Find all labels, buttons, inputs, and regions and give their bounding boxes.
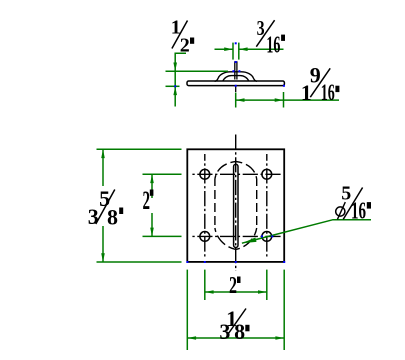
ext line at dome top level [166, 70, 229, 72]
hole bottom-left [200, 232, 210, 242]
left column centerline [204, 154, 206, 258]
ext bottom [97, 261, 182, 263]
svg-text:8: 8 [234, 319, 245, 344]
hole bottom-right [262, 232, 272, 242]
center vertical centerline [235, 133, 237, 271]
dome outline bottom arc (dashed) [215, 228, 257, 250]
svg-text:16: 16 [351, 198, 366, 224]
left dim line + arrow right [215, 48, 234, 50]
bridge outer dome arc with feet [215, 72, 257, 82]
arrows [150, 174, 154, 183]
dim line [151, 174, 153, 198]
dim line [236, 99, 339, 101]
arrow down (tip at 71.3) [173, 63, 177, 72]
svg-text:2: 2 [143, 186, 151, 215]
slot rounded rect [234, 164, 238, 247]
svg-text:2: 2 [180, 35, 190, 57]
ext top [143, 173, 182, 175]
bottom row centerline [191, 235, 283, 237]
ext lines [204, 270, 206, 300]
right dim line + arrow left [239, 48, 284, 50]
svg-text:3: 3 [219, 319, 230, 344]
dome outline right side (dashed) [256, 179, 258, 228]
ext lines [232, 43, 234, 60]
dim line (broken for text) [102, 149, 104, 186]
bridge inner dome arc [223, 76, 249, 82]
leader line [242, 220, 371, 244]
ext top [97, 148, 182, 150]
hole top-right [262, 169, 272, 179]
dome outline top arc (dashed) [215, 162, 257, 180]
svg-text:2: 2 [229, 273, 237, 299]
plate bar edge view [187, 81, 284, 86]
arrows [187, 336, 196, 340]
ext line at bar bottom level [166, 85, 180, 87]
svg-text:5: 5 [341, 183, 351, 205]
top row centerline [191, 173, 283, 175]
svg-text:16: 16 [266, 33, 280, 59]
right column centerline [266, 154, 268, 258]
ext lines [186, 270, 188, 350]
ext line right end [283, 92, 285, 108]
arrowhead [242, 238, 257, 244]
slot walls protruding (edge view) [234, 61, 236, 79]
dim line [205, 291, 267, 293]
dim line [187, 337, 284, 339]
svg-text:8: 8 [107, 205, 118, 230]
arrows [205, 290, 214, 294]
ext bottom [143, 235, 182, 237]
plate rectangle [187, 149, 284, 262]
arrow right tip [275, 98, 284, 102]
svg-text:3: 3 [88, 204, 99, 229]
arrow up (tip at 86.3) [173, 86, 177, 95]
ext line center [235, 93, 237, 108]
hole top-left [200, 169, 210, 179]
dome outline left side (dashed) [214, 179, 216, 228]
centerline below bar [235, 86, 237, 92]
arrows [101, 149, 105, 158]
dim line vertical with jog under text [175, 53, 186, 106]
arrow left tip [236, 98, 245, 102]
svg-text:16: 16 [321, 80, 335, 105]
